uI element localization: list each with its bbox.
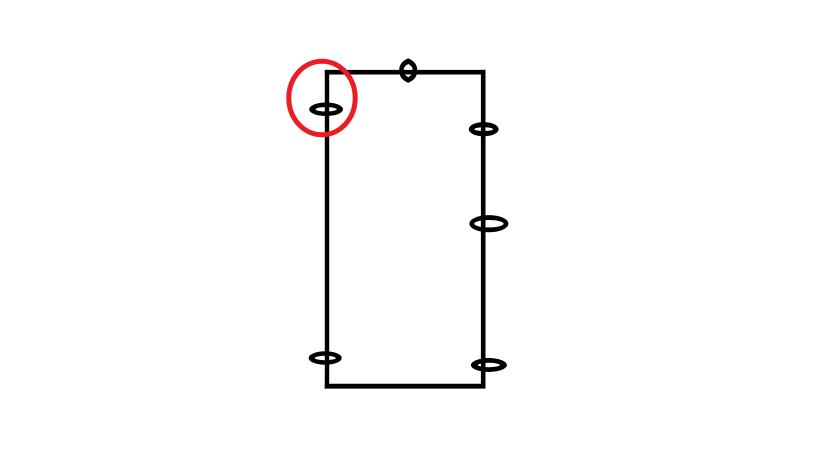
oval marker right middle bbox=[469, 215, 508, 232]
oval marker right lower bbox=[471, 358, 507, 372]
wire left bbox=[325, 70, 329, 389]
oval marker top (vertical almond) bbox=[399, 58, 417, 83]
wire bottom bbox=[325, 384, 486, 389]
oval marker right upper bbox=[469, 122, 499, 136]
wire right bbox=[481, 70, 486, 389]
wire top bbox=[325, 70, 486, 75]
oval marker left upper (highlighted) bbox=[309, 103, 343, 117]
red highlight circle bbox=[289, 61, 355, 135]
oval marker left lower bbox=[309, 351, 342, 365]
